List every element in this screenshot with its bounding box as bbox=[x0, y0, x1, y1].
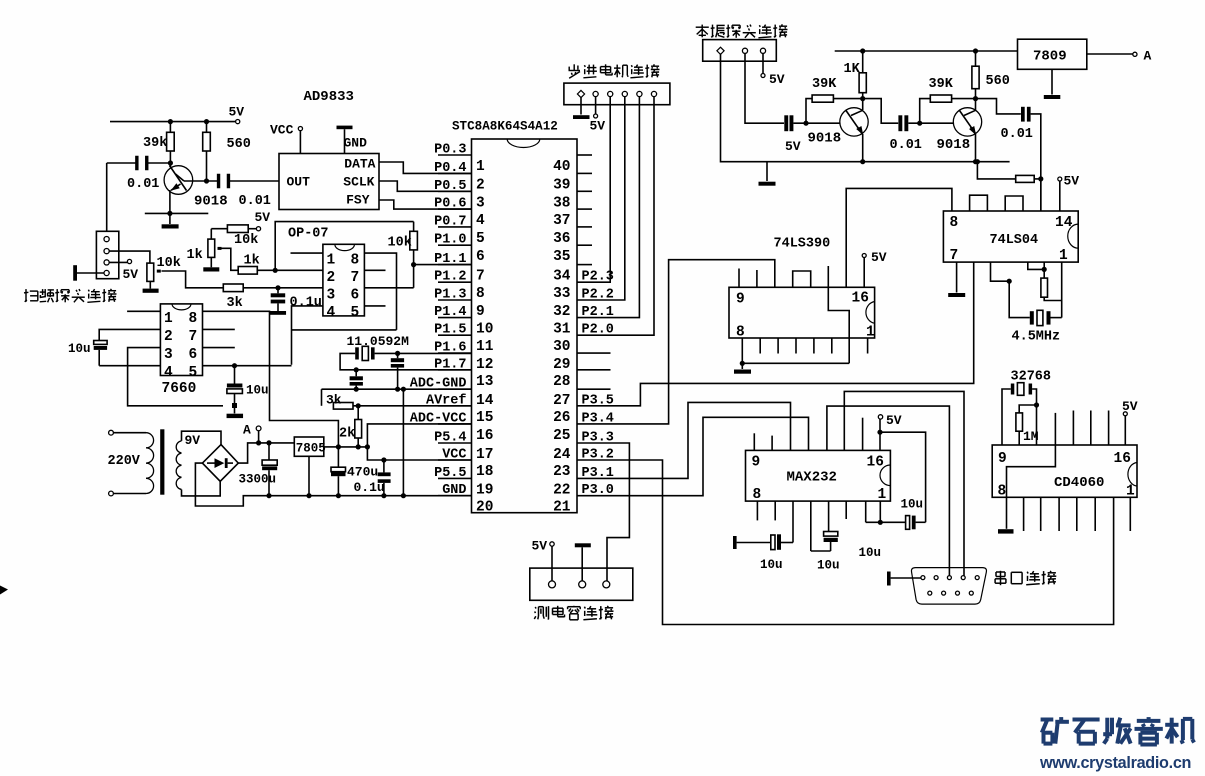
svg-text:4.5MHz: 4.5MHz bbox=[1012, 330, 1061, 345]
bridge rectifier bbox=[202, 445, 238, 482]
svg-text:560: 560 bbox=[227, 137, 251, 152]
svg-text:3: 3 bbox=[327, 287, 336, 303]
wire 7660 pin8 to 5V rail bbox=[203, 311, 339, 447]
connector DB9 shell bbox=[911, 568, 986, 605]
junction xtal cap left bbox=[354, 367, 359, 372]
wire bridge positive to A node bbox=[238, 443, 294, 463]
junction 10k bottom / P1.1 bbox=[411, 262, 416, 267]
svg-text:15: 15 bbox=[476, 410, 493, 426]
svg-text:8: 8 bbox=[950, 215, 959, 231]
wire J-stepper pin3 to P2.3 bbox=[577, 97, 610, 283]
IC U-MAX232 body bbox=[746, 450, 891, 503]
svg-text:21: 21 bbox=[553, 500, 571, 516]
wire Q1 collector to coupling cap bbox=[184, 178, 218, 183]
IC U-MCU left pin labels bbox=[410, 143, 467, 499]
IC U-7660 label bbox=[162, 381, 197, 397]
74LS390 internal link bbox=[828, 287, 849, 363]
terminal 5V MAX232 pin16 bbox=[877, 413, 901, 450]
resistor 39K (Q2a) bbox=[806, 77, 863, 123]
wire pot wiper to 3k bbox=[162, 271, 224, 288]
wire cap to Q1 base junction bbox=[147, 160, 173, 165]
ground 1k pot bbox=[203, 267, 219, 271]
svg-text:1: 1 bbox=[164, 311, 173, 327]
resistor 560 (Q1 collector) bbox=[203, 122, 251, 181]
svg-text:0.1u: 0.1u bbox=[354, 480, 385, 495]
svg-text:5V: 5V bbox=[886, 413, 902, 428]
svg-text:470u: 470u bbox=[347, 465, 378, 480]
svg-text:5V: 5V bbox=[123, 267, 139, 282]
svg-text:9018: 9018 bbox=[937, 137, 971, 153]
capacitor 0.01 (Q2a to Q2b) bbox=[863, 99, 922, 153]
watermark logo text bbox=[1041, 717, 1195, 744]
wire coupling cap to AD9833 OUT bbox=[229, 180, 279, 182]
svg-text:1: 1 bbox=[476, 159, 485, 175]
svg-text:5: 5 bbox=[351, 305, 360, 321]
svg-text:8: 8 bbox=[753, 487, 762, 503]
wire J-stepper pin4 to P2.2 bbox=[577, 97, 625, 300]
svg-text:5: 5 bbox=[189, 365, 198, 381]
resistor 3k (OP-07 pin3) bbox=[223, 284, 323, 311]
MAX232 bottom stubs bbox=[757, 501, 846, 520]
svg-text:10u: 10u bbox=[246, 384, 269, 398]
svg-text:5V: 5V bbox=[1064, 174, 1080, 189]
ground GND AD9833 bbox=[337, 126, 368, 154]
capacitor 10u (V+ to 5V) bbox=[866, 498, 926, 530]
wire 5V to charge cap 10u bbox=[880, 432, 926, 522]
svg-text:7: 7 bbox=[351, 270, 360, 286]
IC U-CD4060 body bbox=[992, 445, 1137, 500]
svg-text:39K: 39K bbox=[929, 77, 954, 92]
svg-text:GND: GND bbox=[344, 136, 368, 151]
svg-text:4: 4 bbox=[476, 213, 485, 229]
svg-text:A: A bbox=[1144, 49, 1152, 64]
svg-text:10k: 10k bbox=[157, 256, 181, 271]
svg-text:17: 17 bbox=[476, 447, 493, 463]
junction AVref/2k bbox=[356, 403, 361, 408]
junction emitter rail resistor bbox=[975, 159, 980, 164]
svg-text:0.01: 0.01 bbox=[127, 177, 159, 192]
transformer core bbox=[160, 429, 164, 494]
svg-text:31: 31 bbox=[553, 322, 571, 338]
resistor 10k feedback bbox=[388, 222, 418, 265]
terminal 5V J-losc pin3 bbox=[761, 53, 785, 87]
svg-text:11: 11 bbox=[476, 339, 494, 355]
wire junction down to OP-07 pin6 bbox=[364, 265, 413, 288]
svg-text:9018: 9018 bbox=[194, 194, 228, 210]
svg-text:10u: 10u bbox=[760, 558, 783, 572]
artifact arrow left edge bbox=[0, 586, 8, 595]
svg-text:0.01: 0.01 bbox=[890, 138, 922, 153]
wire J-stepper pin6 to P2.0 bbox=[577, 97, 654, 336]
wire J-losc pin1 to emitter rail bbox=[721, 53, 1010, 161]
junction 0.1u top bbox=[275, 285, 280, 290]
capacitor 10u (V-) with bar bbox=[733, 501, 793, 572]
svg-text:1k: 1k bbox=[187, 248, 203, 263]
svg-text:3: 3 bbox=[164, 347, 173, 363]
resistor 1K bbox=[844, 51, 867, 101]
svg-text:STC8A8K64S4A12: STC8A8K64S4A12 bbox=[452, 120, 558, 134]
regulator 7805 bbox=[294, 437, 338, 456]
svg-text:2: 2 bbox=[327, 270, 336, 286]
svg-text:1k: 1k bbox=[244, 254, 260, 269]
wire ADC-VCC to 5V rail bbox=[367, 424, 471, 447]
svg-text:10k: 10k bbox=[234, 233, 258, 248]
potentiometer 1k bbox=[187, 229, 222, 268]
74LS04 top jumper 2 bbox=[1005, 196, 1023, 211]
svg-text:5V: 5V bbox=[590, 119, 606, 134]
svg-text:9018: 9018 bbox=[808, 131, 842, 147]
wire 7660 pin6 stub bbox=[203, 347, 235, 349]
svg-text:OP-07: OP-07 bbox=[288, 227, 329, 242]
svg-text:13: 13 bbox=[476, 374, 493, 390]
svg-text:39: 39 bbox=[553, 177, 570, 193]
IC U-MCU body bbox=[472, 139, 578, 513]
crystal 11.0592M label bbox=[347, 334, 410, 349]
label 220V bbox=[108, 454, 141, 469]
svg-text:8: 8 bbox=[351, 253, 360, 269]
connector J-losc pins bbox=[717, 47, 766, 54]
74LS390 top stubs bbox=[739, 266, 828, 287]
wire crystal right to MCU P1.6 bbox=[375, 351, 472, 356]
IC U-MCU STC8A8K64S4A12 label bbox=[452, 120, 558, 134]
CD4060 internal link bbox=[1007, 445, 1056, 497]
wire 74LS04 pin to P3.5 long line bbox=[577, 262, 974, 406]
IC U-OP07 body bbox=[323, 244, 365, 321]
crystal 32768 bbox=[1011, 383, 1032, 396]
svg-text:32768: 32768 bbox=[1011, 370, 1052, 385]
wire MAX232 pin to DB9 pin3 bbox=[827, 406, 950, 575]
svg-text:20: 20 bbox=[476, 500, 493, 516]
capacitor 0.1u (VCC decouple) bbox=[354, 460, 391, 498]
svg-text:23: 23 bbox=[553, 464, 570, 480]
label sweep probe connector bbox=[24, 289, 117, 303]
wire OP-07 pin5 stub bbox=[364, 305, 385, 307]
wire 74LS04 pin1 to crystal right bbox=[1051, 262, 1062, 318]
svg-text:5V: 5V bbox=[769, 72, 785, 87]
svg-text:37: 37 bbox=[553, 213, 570, 229]
svg-text:7809: 7809 bbox=[1033, 49, 1067, 65]
terminal 5V 74LS04 pin14 bbox=[1058, 174, 1080, 212]
resistor osc feedback bbox=[1041, 269, 1062, 300]
svg-text:33: 33 bbox=[553, 286, 570, 302]
svg-text:9: 9 bbox=[752, 455, 761, 471]
capacitor 10u (7660 pin5 to AVref) bbox=[227, 366, 269, 408]
crystal 32768 label bbox=[1011, 370, 1052, 385]
connector pins J-sweep bbox=[104, 237, 109, 276]
connector J-stepper body bbox=[564, 83, 670, 105]
svg-text:1: 1 bbox=[878, 487, 887, 503]
crystal 11.0592M bbox=[355, 346, 374, 360]
terminal 5V 74LS390 pin16 bbox=[862, 250, 887, 287]
svg-text:7: 7 bbox=[189, 329, 198, 345]
wire OP-07 pin8 to right bbox=[364, 253, 396, 330]
label stepper motor connector bbox=[569, 64, 660, 78]
svg-text:10u: 10u bbox=[817, 559, 840, 573]
svg-text:OUT: OUT bbox=[287, 175, 311, 190]
MAX232 top stubs bbox=[754, 418, 862, 451]
resistor 10k (to 5V) bbox=[211, 225, 258, 248]
svg-text:0.1u: 0.1u bbox=[290, 296, 322, 311]
wire crossing at Q1 emitter bbox=[145, 211, 209, 216]
svg-text:6: 6 bbox=[476, 249, 485, 265]
wire 74LS04 osc out to crystal left bbox=[991, 262, 1030, 318]
wire AD9833 SCLK to MCU P0.5 bbox=[379, 181, 472, 191]
svg-text:10u: 10u bbox=[859, 546, 882, 560]
svg-text:DATA: DATA bbox=[344, 156, 375, 171]
potentiometer 10k (sweep level) bbox=[147, 256, 181, 289]
svg-text:24: 24 bbox=[553, 447, 571, 463]
IC U-74LS390 label bbox=[774, 237, 831, 252]
svg-text:40: 40 bbox=[553, 159, 570, 175]
svg-text:35: 35 bbox=[553, 249, 570, 265]
wire 7660 pin7 stub bbox=[203, 328, 235, 330]
watermark url bbox=[1039, 754, 1191, 772]
ground J-stepper pin1 bbox=[573, 98, 590, 119]
svg-text:16: 16 bbox=[476, 428, 493, 444]
svg-text:8: 8 bbox=[736, 325, 745, 341]
terminal 5V (top-left) bbox=[229, 105, 245, 124]
svg-text:14: 14 bbox=[1055, 215, 1073, 231]
terminal 5V J-sweep pin3 bbox=[109, 259, 138, 282]
svg-text:16: 16 bbox=[867, 455, 884, 471]
terminal 5V CD4060 pin16 bbox=[1122, 399, 1138, 445]
ground CD4060 pin8 bbox=[998, 497, 1014, 533]
svg-text:7: 7 bbox=[950, 248, 959, 264]
wire MCU P3.4 to 74LS390 bbox=[577, 260, 775, 424]
wire 5V rail to MCU VCC bbox=[367, 447, 471, 460]
svg-text:10u: 10u bbox=[901, 498, 924, 512]
terminal A node bbox=[243, 423, 261, 446]
wire secondary bottom to bridge bbox=[182, 481, 221, 496]
terminal VCC AD9833 bbox=[270, 123, 303, 154]
wire OP-07 pin1 stub bbox=[291, 252, 323, 254]
svg-text:5V: 5V bbox=[871, 250, 887, 265]
wire 7660 pin1 stub bbox=[127, 310, 160, 312]
IC U-AD9833 label bbox=[304, 89, 354, 105]
capacitor 3300u bbox=[239, 440, 278, 498]
svg-text:0.01: 0.01 bbox=[1001, 127, 1033, 142]
wire 1k wiper to 1k resistor bbox=[222, 248, 239, 270]
ground AVref decouple bbox=[227, 408, 244, 418]
IC U-7660 body bbox=[160, 304, 202, 381]
svg-text:8: 8 bbox=[476, 286, 485, 302]
junction node 560 top bbox=[204, 119, 209, 124]
svg-text:5V: 5V bbox=[255, 210, 271, 225]
svg-text:220V: 220V bbox=[108, 454, 141, 469]
svg-text:5V: 5V bbox=[532, 539, 548, 554]
svg-text:27: 27 bbox=[553, 393, 570, 409]
svg-text:39k: 39k bbox=[143, 136, 167, 151]
wire cap to Q2a base bbox=[793, 121, 840, 126]
wire cap to Q2b base bbox=[908, 121, 953, 126]
svg-text:36: 36 bbox=[553, 231, 570, 247]
connector J-captest pins bbox=[549, 581, 610, 588]
svg-text:www.crystalradio.cn: www.crystalradio.cn bbox=[1039, 754, 1191, 772]
wire 74LS04 pin13 in bbox=[1040, 179, 1042, 211]
svg-text:25: 25 bbox=[553, 428, 570, 444]
ground J-captest pin2 bbox=[575, 543, 591, 581]
transformer secondary coil bbox=[176, 441, 181, 490]
svg-text:SCLK: SCLK bbox=[343, 175, 374, 190]
svg-text:7: 7 bbox=[476, 269, 485, 285]
svg-text:4: 4 bbox=[164, 365, 173, 381]
resistor 39k (Q1 base bias) bbox=[143, 122, 174, 163]
label 10u charge3 bbox=[859, 546, 882, 560]
label local osc probe connector bbox=[696, 24, 788, 38]
transistor Q2b 9018 bbox=[937, 99, 982, 165]
wire OP-07 pin7 stub bbox=[364, 269, 385, 271]
svg-text:7805: 7805 bbox=[296, 442, 326, 456]
IC U-MCU right pin labels bbox=[582, 270, 614, 499]
capacitor 0.01 (Q1 input) bbox=[127, 156, 159, 192]
resistor emitter rail to 74LS04 bbox=[977, 162, 1043, 183]
svg-text:FSY: FSY bbox=[346, 193, 370, 208]
connector J-stepper pins bbox=[577, 90, 656, 97]
crystal 4.5MHz bbox=[1012, 310, 1061, 344]
svg-text:1: 1 bbox=[1126, 484, 1135, 500]
74LS390 bottom stubs bbox=[760, 338, 867, 354]
capacitor xtal load left bbox=[350, 370, 363, 392]
CD4060 bottom stubs bbox=[1024, 497, 1131, 531]
svg-text:38: 38 bbox=[553, 195, 570, 211]
svg-text:29: 29 bbox=[553, 357, 570, 373]
junction VCC 0.1u bbox=[381, 457, 386, 462]
wire bridge negative to ground rail bbox=[195, 463, 471, 506]
IC U-OP07 label bbox=[288, 227, 329, 242]
svg-text:3300u: 3300u bbox=[239, 473, 277, 487]
ground 7809 bbox=[1044, 69, 1061, 99]
wire MCU P3.2 to CD4060 long route bbox=[577, 460, 1114, 625]
svg-text:5V: 5V bbox=[785, 139, 801, 154]
wire 7660 pin3 to AVref line bbox=[128, 348, 223, 406]
label serial connector bbox=[995, 571, 1056, 585]
svg-text:5V: 5V bbox=[1122, 399, 1138, 414]
svg-text:10: 10 bbox=[476, 322, 493, 338]
svg-text:28: 28 bbox=[553, 374, 570, 390]
connector J-captest body bbox=[530, 568, 633, 600]
connector DB9 pins bbox=[921, 576, 979, 596]
wire secondary top to bridge bbox=[182, 431, 222, 444]
wire ADC-GND link down bbox=[321, 389, 323, 406]
resistor 1M bbox=[1016, 405, 1039, 445]
wire AD9833 FSY to MCU P0.6 bbox=[379, 200, 472, 209]
capacitor input (labelled 5V) bbox=[784, 115, 801, 154]
ground 74LS04 pin7 bbox=[948, 262, 965, 297]
svg-text:MAX232: MAX232 bbox=[787, 470, 837, 486]
svg-text:6: 6 bbox=[351, 287, 360, 303]
capacitor 10u (charge 2) bbox=[811, 501, 840, 572]
svg-text:VCC: VCC bbox=[270, 123, 294, 138]
svg-text:3: 3 bbox=[476, 195, 485, 211]
IC U-AD9833 body bbox=[279, 154, 379, 210]
top rail 9V (to 7809) bbox=[835, 48, 1018, 53]
transistor Q2a 9018 bbox=[808, 99, 869, 165]
label cap test connector bbox=[534, 606, 613, 620]
resistor 2k bbox=[339, 406, 362, 447]
wire ADC-GND line bbox=[322, 388, 472, 390]
svg-text:39K: 39K bbox=[812, 77, 837, 92]
wire 74LS04 pins to osc resistor bbox=[1028, 262, 1047, 272]
wire 32768 right to CD4060 bbox=[1032, 389, 1039, 445]
IC U-74LS390 body bbox=[729, 287, 875, 340]
svg-text:8: 8 bbox=[189, 311, 198, 327]
svg-text:9: 9 bbox=[736, 292, 745, 308]
svg-text:AD9833: AD9833 bbox=[304, 89, 354, 105]
capacitor 0.01 (Q1 output coupling) bbox=[217, 174, 271, 209]
svg-text:2: 2 bbox=[164, 329, 173, 345]
svg-text:16: 16 bbox=[852, 291, 869, 307]
wire MCU P3.3 to cap test connector bbox=[577, 443, 629, 581]
label 9V bbox=[185, 433, 201, 448]
resistor 39K (Q2b) bbox=[920, 77, 976, 123]
svg-text:9V: 9V bbox=[185, 433, 201, 448]
svg-text:30: 30 bbox=[553, 339, 570, 355]
capacitor 0.01 (Q2b output) bbox=[976, 99, 1041, 211]
transformer primary coil bbox=[146, 433, 154, 494]
svg-text:14: 14 bbox=[476, 393, 494, 409]
resistor 3k (AVref) bbox=[326, 393, 472, 410]
wire MAX232 pin to DB9 pin4 bbox=[844, 391, 964, 575]
wire J-sweep pin2 to 10k pot bbox=[109, 251, 150, 263]
svg-text:5: 5 bbox=[476, 231, 485, 247]
wire junction to MCU P1.1 bbox=[414, 264, 472, 266]
ground 7805 pin bbox=[306, 456, 311, 498]
svg-text:CD4060: CD4060 bbox=[1054, 475, 1104, 491]
terminal 5V (OP-07 bias) bbox=[255, 210, 271, 231]
probe ground bar J-sweep pin4 bbox=[73, 265, 104, 281]
svg-text:22: 22 bbox=[553, 482, 570, 498]
wire ADC-GND to GND rail vertical bbox=[401, 387, 406, 499]
wire J-stepper pin5 to P2.1 bbox=[577, 97, 639, 318]
svg-text:19: 19 bbox=[476, 482, 493, 498]
svg-text:7660: 7660 bbox=[162, 381, 197, 397]
ground 0.1u bbox=[270, 311, 287, 315]
capacitor 10u (7660 pins2-4) bbox=[68, 329, 160, 365]
svg-text:10u: 10u bbox=[68, 342, 91, 356]
wire 7660 pin5 to OP-07 pin4 rail bbox=[203, 363, 292, 368]
terminal 220V top bbox=[109, 430, 146, 435]
wire Q1 input cap left to probe connector bbox=[107, 163, 137, 231]
ground 10k pot bbox=[143, 289, 159, 293]
CD4060 top stubs bbox=[1055, 411, 1108, 446]
svg-text:5V: 5V bbox=[229, 105, 245, 120]
wire OP-07 feedback loop pin2 to 10k top bbox=[275, 222, 413, 271]
terminal 5V J-stepper pin2 bbox=[590, 97, 606, 134]
junction 5V rail at 470u bbox=[336, 444, 370, 449]
connector J-losc body bbox=[703, 40, 777, 62]
junction node 39k top bbox=[168, 119, 173, 124]
wire crystal left to MCU P1.7 bbox=[340, 353, 471, 369]
74LS390 top jumper bbox=[793, 271, 811, 287]
wire 74LS390 to 74LS04 top link bbox=[846, 188, 952, 287]
svg-text:10k: 10k bbox=[388, 236, 412, 251]
wire MCU P3.1 to MAX232 bbox=[577, 402, 791, 478]
ground emitter rail bbox=[759, 162, 776, 186]
svg-text:A: A bbox=[243, 423, 251, 438]
wire 5V rail top-left bbox=[110, 121, 236, 123]
74LS04 top jumper 1 bbox=[970, 195, 988, 211]
svg-text:12: 12 bbox=[476, 357, 493, 373]
IC U-MCU left pin stubs bbox=[438, 155, 472, 496]
svg-text:74LS390: 74LS390 bbox=[774, 237, 831, 252]
wire AD9833 DATA to MCU P0.4 bbox=[379, 162, 472, 173]
terminal A output 7809 bbox=[1087, 49, 1152, 64]
wire 32768 left to CD4060 bbox=[1002, 389, 1011, 445]
ground bar DB9 pin1 bbox=[887, 572, 921, 586]
svg-text:4: 4 bbox=[327, 305, 336, 321]
svg-text:32: 32 bbox=[553, 304, 570, 320]
ground Q1 emitter bbox=[162, 213, 179, 228]
